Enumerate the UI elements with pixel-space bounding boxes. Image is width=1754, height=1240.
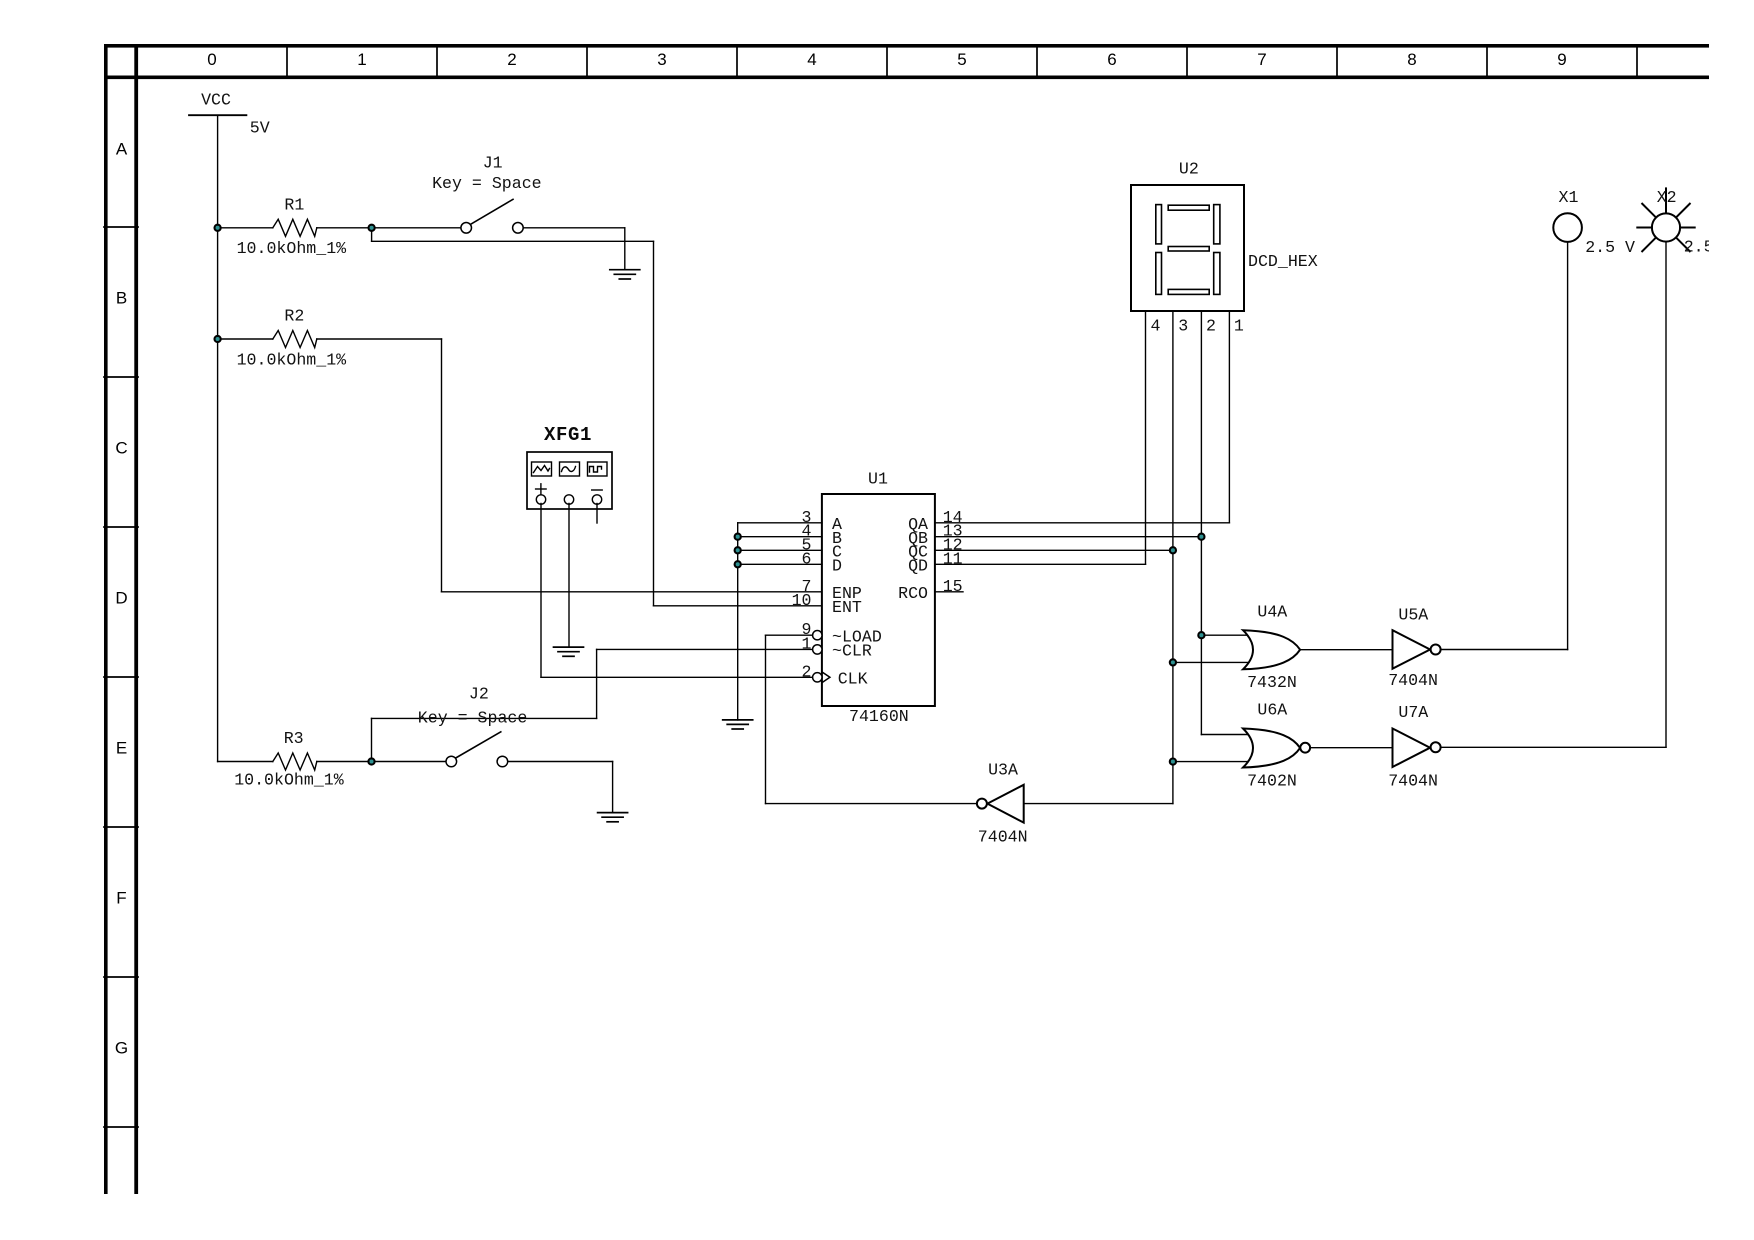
wire U6A input top xyxy=(1201,734,1252,736)
svg-text:3: 3 xyxy=(1178,316,1188,335)
wire ~CLR net to pin 1 xyxy=(597,648,813,650)
ground G2 (J2) xyxy=(598,813,628,822)
svg-text:10: 10 xyxy=(792,591,812,610)
wire U4A input bottom xyxy=(1173,661,1252,663)
svg-text:DCD_HEX: DCD_HEX xyxy=(1248,252,1318,271)
wire VCC rail vertical xyxy=(217,115,219,761)
wire QD xyxy=(935,563,1146,565)
ground G4 (ABCD) xyxy=(723,720,753,729)
pin numbers right xyxy=(943,508,963,596)
svg-text:7404N: 7404N xyxy=(1388,771,1438,790)
icon wave1 xyxy=(534,466,550,473)
resistor R3 xyxy=(273,753,317,770)
IC U1 box xyxy=(822,494,935,706)
icon square xyxy=(590,467,602,473)
switch J2 xyxy=(446,732,508,767)
svg-text:1: 1 xyxy=(357,50,366,69)
OR gate U4A xyxy=(1243,630,1300,669)
svg-text:C: C xyxy=(115,438,127,457)
svg-text:D: D xyxy=(832,557,842,576)
U2 pin numbers xyxy=(1151,316,1244,335)
svg-text:VCC: VCC xyxy=(201,91,231,110)
svg-text:J1: J1 xyxy=(483,154,503,173)
svg-text:E: E xyxy=(116,738,127,757)
svg-text:4: 4 xyxy=(1151,316,1161,335)
inverter U7A xyxy=(1393,729,1441,768)
svg-text:U1: U1 xyxy=(868,469,888,488)
svg-text:U5A: U5A xyxy=(1398,605,1428,624)
svg-text:11: 11 xyxy=(943,549,963,568)
node QC-U4A xyxy=(1170,659,1176,665)
lamp X2 rays xyxy=(1637,188,1694,251)
wire VCC rail to R3 xyxy=(218,761,273,763)
svg-text:2: 2 xyxy=(507,50,516,69)
wire QB xyxy=(935,536,1202,538)
svg-text:10.0kOhm_1%: 10.0kOhm_1% xyxy=(237,350,347,369)
wire U3A output xyxy=(766,803,977,805)
terminal + circle xyxy=(536,495,545,504)
row cell separators xyxy=(104,227,138,1127)
svg-text:10.0kOhm_1%: 10.0kOhm_1% xyxy=(234,771,344,790)
wire ~LOAD horizontal xyxy=(766,634,813,636)
row labels A-G xyxy=(115,139,128,1057)
wire ~CLR net vertical xyxy=(596,649,598,718)
node R1-VCC xyxy=(215,225,221,231)
svg-text:6: 6 xyxy=(802,549,812,568)
wire QA xyxy=(935,522,1230,524)
svg-text:5V: 5V xyxy=(250,119,270,138)
wire U2 pin 1 xyxy=(1228,311,1230,523)
svg-text:R3: R3 xyxy=(284,729,304,748)
node QB-U2p2 xyxy=(1198,534,1204,540)
ground G1 (J1) xyxy=(610,270,640,279)
pin bubble CLK xyxy=(813,673,822,682)
wire pin D xyxy=(738,563,822,565)
resistor R2 xyxy=(273,331,317,348)
svg-text:7404N: 7404N xyxy=(978,827,1028,846)
svg-text:X1: X1 xyxy=(1559,188,1579,207)
wire XFG1 + to CLK xyxy=(540,504,542,678)
node QC-U2p3 xyxy=(1170,547,1176,553)
wire pin B xyxy=(738,536,822,538)
seven-segment digit xyxy=(1156,205,1220,295)
svg-text:1: 1 xyxy=(802,634,812,653)
wire U6A to U7A xyxy=(1310,747,1392,749)
switch J1 xyxy=(461,199,523,233)
svg-text:QD: QD xyxy=(908,557,928,576)
svg-text:7: 7 xyxy=(1257,50,1266,69)
wire U7A to X2 xyxy=(1441,746,1666,748)
wire U4A to U5A xyxy=(1300,649,1392,651)
terminal - circle xyxy=(592,495,601,504)
wire U4A input top xyxy=(1201,634,1252,636)
svg-text:U3A: U3A xyxy=(988,761,1018,780)
wire U2 pin 4 xyxy=(1145,311,1147,564)
pin bubble ~LOAD xyxy=(813,631,822,683)
resistor R1 xyxy=(273,219,317,236)
wire ENT net horizontal xyxy=(372,240,654,242)
wire ~LOAD vertical xyxy=(765,635,767,803)
svg-text:U2: U2 xyxy=(1179,160,1199,179)
wire pin C xyxy=(738,549,822,551)
wire ~CLR net up from R3 node xyxy=(371,718,373,761)
inverter U5A xyxy=(1393,630,1441,669)
svg-text:7404N: 7404N xyxy=(1388,671,1438,690)
node QC-U6A xyxy=(1170,759,1176,765)
wire RCO stub xyxy=(935,591,963,593)
svg-text:7432N: 7432N xyxy=(1247,673,1297,692)
svg-text:B: B xyxy=(116,288,127,307)
node D gnd xyxy=(735,561,741,567)
svg-text:J2: J2 xyxy=(469,685,489,704)
pin bubble ~CLR xyxy=(813,645,822,654)
wire QC xyxy=(935,549,1173,551)
wire R2 to ENP vertical xyxy=(317,338,442,340)
wire ~CLR net horizontal xyxy=(372,717,597,719)
lamp X2 xyxy=(1652,213,1680,241)
wire VCC to R1 xyxy=(218,227,273,229)
svg-text:4: 4 xyxy=(807,50,816,69)
display U2 box xyxy=(1131,185,1244,311)
svg-text:3: 3 xyxy=(657,50,666,69)
svg-text:F: F xyxy=(116,888,126,907)
icon sine xyxy=(562,467,576,472)
wire U2 pin 3 xyxy=(1172,311,1174,804)
node QB-U4A xyxy=(1198,632,1204,638)
ground G3 (XFG1) xyxy=(554,647,584,656)
svg-text:R2: R2 xyxy=(284,306,304,325)
wire ENT net to pin 10 xyxy=(654,605,822,607)
svg-text:D: D xyxy=(115,588,127,607)
svg-text:XFG1: XFG1 xyxy=(544,424,592,446)
svg-text:0: 0 xyxy=(207,50,216,69)
svg-text:1: 1 xyxy=(1234,316,1244,335)
clock triangle CLK xyxy=(822,672,830,683)
svg-text:CLK: CLK xyxy=(838,670,868,689)
node R2-VCC xyxy=(215,336,221,342)
svg-text:6: 6 xyxy=(1107,50,1116,69)
wire U3A input xyxy=(1024,803,1173,805)
wire pin A xyxy=(738,522,822,524)
wire R1 to J1 xyxy=(317,227,461,229)
svg-text:9: 9 xyxy=(1557,50,1566,69)
wire ENP to pin 7 xyxy=(442,591,822,593)
svg-text:~CLR: ~CLR xyxy=(832,642,872,661)
svg-text:Key = Space: Key = Space xyxy=(418,709,528,728)
svg-text:8: 8 xyxy=(1407,50,1416,69)
plus sign xyxy=(536,488,547,490)
instrument XFG1 xyxy=(527,452,612,509)
node C gnd xyxy=(735,547,741,553)
lamp X1 xyxy=(1553,213,1582,242)
svg-text:ENT: ENT xyxy=(832,598,862,617)
wire J1 to ground drop xyxy=(523,227,625,229)
svg-text:7402N: 7402N xyxy=(1247,771,1297,790)
svg-text:X2: X2 xyxy=(1657,188,1677,207)
svg-text:U6A: U6A xyxy=(1257,700,1287,719)
svg-text:U7A: U7A xyxy=(1398,703,1428,722)
wire R3 to J2 xyxy=(317,761,446,763)
svg-text:R1: R1 xyxy=(284,195,304,214)
wire VCC to R2 xyxy=(218,338,273,340)
svg-text:5: 5 xyxy=(957,50,966,69)
svg-text:G: G xyxy=(115,1038,128,1057)
terminal common circle xyxy=(564,495,573,504)
power VCC symbol xyxy=(189,114,246,116)
wire ENT net: drop from R1 node xyxy=(371,228,373,242)
svg-text:2.5 V: 2.5 V xyxy=(1585,238,1635,257)
wire U2 pin 2 xyxy=(1200,311,1202,735)
svg-text:15: 15 xyxy=(943,577,963,596)
minus sign xyxy=(592,489,603,491)
svg-text:2: 2 xyxy=(1206,316,1216,335)
node B gnd xyxy=(735,534,741,540)
wire U5A to X1 xyxy=(1441,649,1568,651)
column labels 0-9 xyxy=(207,50,1566,69)
node R1-J1-ENT xyxy=(369,225,375,231)
svg-text:RCO: RCO xyxy=(898,584,928,603)
svg-text:U4A: U4A xyxy=(1257,602,1287,621)
wire J2 to ground xyxy=(508,761,613,763)
wire ENT net vertical xyxy=(653,241,655,606)
svg-text:2: 2 xyxy=(802,662,812,681)
header cell separators xyxy=(287,47,1637,76)
pin labels inside U1 xyxy=(832,515,882,689)
wire U6A input bottom xyxy=(1173,761,1252,763)
wire XFG1 - stub xyxy=(596,504,598,524)
inverter U3A xyxy=(977,785,1024,823)
svg-text:A: A xyxy=(116,139,128,158)
svg-text:2.5 V: 2.5 V xyxy=(1684,237,1734,256)
NOR gate U6A xyxy=(1243,729,1310,768)
pin numbers left xyxy=(792,508,812,682)
node R3-J2-CLR xyxy=(368,758,374,764)
wire XFG1 common to ground xyxy=(568,504,570,648)
svg-text:Key = Space: Key = Space xyxy=(432,174,542,193)
svg-text:74160N: 74160N xyxy=(849,707,909,726)
wire ABCD ground vertical xyxy=(737,523,739,720)
svg-text:10.0kOhm_1%: 10.0kOhm_1% xyxy=(237,239,347,258)
